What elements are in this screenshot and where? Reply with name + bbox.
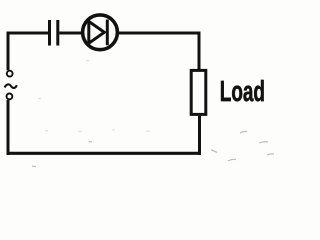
resistor Load box xyxy=(191,70,206,114)
wire resistor to bottom-right corner xyxy=(198,116,201,155)
wire diode to top-right corner xyxy=(117,32,199,35)
diode D1 circle envelope xyxy=(83,15,118,50)
terminal lower input circle xyxy=(6,94,12,100)
wire top-left horizontal segment xyxy=(7,32,49,35)
capacitor C1 right plate xyxy=(56,20,59,46)
wire top-right vertical to resistor xyxy=(198,32,201,71)
wire capacitor to diode xyxy=(59,32,83,35)
diode D1 anode triangle xyxy=(89,21,105,43)
diode D1 cathode bar xyxy=(106,20,109,46)
svg-text:Load: Load xyxy=(220,76,265,108)
AC tilde symbol xyxy=(5,84,17,88)
capacitor C1 left plate xyxy=(48,20,51,46)
wire top-left vertical drop to input terminal xyxy=(7,32,10,71)
wire lower terminal to bottom-left corner xyxy=(7,100,10,155)
terminal upper input circle xyxy=(7,71,13,77)
wire bottom horizontal xyxy=(7,152,202,155)
